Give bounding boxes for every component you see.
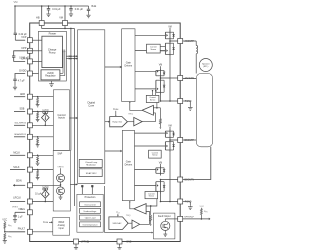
wire charge pump to regulator [62,50,64,74]
svg-text:VCP: VCP [21,36,26,39]
svg-text:TRQ: TRQ [126,215,131,217]
svg-text:VCC: VCC [199,206,204,208]
svg-text:Input: Input [59,227,64,230]
block Gate Drivers A [122,29,135,102]
wire core to ramp A [105,121,110,123]
svg-text:0.01 µF: 0.01 µF [52,8,61,11]
wire core to gate drivers A [105,66,122,68]
pin CPP [27,48,32,53]
svg-text:CPP: CPP [21,47,26,50]
svg-text:VREF: VREF [58,222,65,224]
transistor low side B1 [169,140,171,153]
pin FAULT [27,229,32,234]
transistor fault open drain [161,221,170,230]
svg-text:MCLK: MCLK [13,151,20,154]
node sense taps A [152,90,153,91]
wire internal rail 1 [70,28,72,150]
svg-text:0.01 µF: 0.01 µF [75,8,84,11]
block Control Inputs [53,90,69,151]
op-amp comparator A [142,105,153,115]
resistor pulldown ADR [37,96,39,98]
capacitor C1 0.01uF [48,6,50,9]
transistor low side B2 [160,180,162,194]
svg-text:SDB: SDB [19,108,24,111]
block SAP serial audio port [53,150,70,211]
svg-text:Regulator: Regulator [45,75,56,78]
wire core to protection 2 [91,186,93,194]
svg-text:Overtemperature: Overtemperature [82,223,98,226]
svg-text:VREG: VREG [18,208,25,211]
svg-text:TRQ: TRQ [128,113,133,115]
svg-text:DVDD: DVDD [19,70,26,73]
svg-text:VM: VM [14,0,18,4]
pin ASOUTN [160,77,162,79]
wire ASOUTN to load [183,78,197,80]
svg-text:Pump: Pump [49,51,56,55]
wire power to digital core bus [66,55,77,57]
pin MCLK [27,153,32,158]
svg-text:Open Load: Open Load [85,218,96,220]
pin BSOUTP [169,139,171,141]
svg-text:Drivers: Drivers [125,64,133,67]
block Undervoltage [80,208,101,213]
pin SCLK [27,167,32,172]
block Current Sense B2 [145,192,158,199]
block Overcurrent [80,202,101,207]
wire fault to pin [164,219,166,221]
ramp generator A [110,117,128,127]
svg-text:SDA/GPIO1: SDA/GPIO1 [14,133,27,136]
transistor high side B1 [169,129,171,140]
transistor low side A2 [160,78,162,95]
SNS DAC B [109,217,128,230]
wire current sense B to comparator [146,199,157,206]
svg-text:Undervoltage: Undervoltage [84,210,98,213]
block Current Sense B1 [149,150,162,158]
wire current sense A to comparator [153,103,157,108]
block Open Load [80,215,101,220]
svg-text:SNS DAC: SNS DAC [113,222,122,225]
block Overtemperature [80,222,101,227]
wire core to fault block [104,186,106,233]
svg-text:Ramp Gen: Ramp Gen [112,122,122,124]
transistor pullup in SAP [57,174,65,182]
svg-text:LRCLK: LRCLK [13,197,21,200]
svg-text:ASOUTP: ASOUTP [185,40,195,43]
capacitor VREG 1uF [14,212,16,215]
svg-text:CPN: CPN [21,57,26,60]
svg-text:Drivers: Drivers [125,163,133,166]
transistor high side A1 [169,30,171,41]
resistor pulldown SDB [37,111,39,113]
svg-text:(PPAD): (PPAD) [81,241,89,244]
capacitor CP fly 0.033uF [14,51,26,56]
transistor high side A2 [160,68,162,78]
svg-text:Inputs: Inputs [58,117,66,120]
resistor pulldown SCLK [37,169,39,171]
pin PPAD bottom [74,239,79,244]
block Current Sense A1 [147,44,161,53]
resistor pulldown MCLK [37,155,39,157]
op-amp pwm A [127,121,133,123]
transistor low side A1 [169,41,171,57]
wire control to core [70,117,78,119]
resistor pulldown SDA [37,136,39,138]
wire top supply rail [15,5,89,7]
pin PGND A [161,100,178,102]
pin CPN [27,59,32,64]
svg-text:VM: VM [59,17,63,20]
wire BSOUTN to load [183,147,211,180]
svg-text:SDAP SRC: SDAP SRC [86,172,97,175]
svg-text:10 µA: 10 µA [35,192,42,195]
svg-text:GND: GND [126,241,132,244]
capacitor VCP 0.22uF [14,32,17,34]
svg-text:Overcurrent: Overcurrent [84,203,96,206]
speaker note circle [199,59,212,72]
svg-text:Power: Power [49,32,57,36]
ground PGND A [183,100,191,102]
svg-text:Sense: Sense [152,155,157,157]
pin BSOUTN [160,179,162,181]
svg-text:HB: HB [36,17,40,20]
block Digital Core [78,30,105,184]
svg-text:SAP: SAP [57,152,62,155]
pin HB top [41,6,43,21]
pin SDB [27,109,32,114]
svg-text:Sense: Sense [149,196,154,198]
svg-text:SPKVN-F: SPKVN-F [184,217,194,219]
block Power [39,31,67,81]
ground PGND B [183,201,191,203]
svg-text:Fault Output: Fault Output [158,215,171,218]
block Closed Loop Modulator [79,160,102,168]
wire VM vertical to VCP cap [14,6,16,33]
resistor pullup fault [183,218,210,220]
svg-text:(BTL): (BTL) [203,66,208,68]
wire internal rail 2 [73,28,75,206]
transistor high side B2 [160,166,162,176]
capacitor C3 bulk [88,6,90,9]
op-amp comparator B [134,204,146,214]
ground below power block [51,81,53,82]
wire BSOUTP to load [183,139,197,141]
pin SDIN [27,183,32,188]
svg-text:VREG: VREG [57,166,63,168]
svg-text:ADR: ADR [20,93,25,96]
svg-text:SCL/GPIO2: SCL/GPIO2 [14,122,26,124]
pin DVDD [27,71,32,76]
op-amp pwm B [128,222,132,224]
transistor pulldown in SAP [57,187,65,195]
resistor sense A [157,107,161,109]
pin SCL/GPIO2 [27,123,32,128]
load [196,74,212,147]
pin GND bottom [117,239,122,244]
svg-text:Fuse: Fuse [113,109,119,111]
pin SPKVN-F [178,216,183,221]
svg-text:Analog: Analog [58,224,66,227]
wire SAP to core [70,183,77,185]
wire A1 source down [169,57,171,101]
block Protection [77,194,103,232]
svg-text:Modulator: Modulator [86,163,96,166]
capacitor C2 0.01uF [70,6,72,9]
wire ASOUTP to filter [183,40,197,42]
svg-text:Core: Core [88,104,94,108]
wire B2 source to pgnd [160,194,162,202]
wire comparator A out to gate drivers [130,102,142,111]
svg-text:1 µF: 1 µF [18,215,23,218]
block AVDD Regulator [41,70,60,80]
wire pwm A to comparator A [142,113,155,122]
wire core to gate drivers B [105,150,123,152]
svg-text:SCLK: SCLK [13,166,20,169]
pin ADR [27,94,32,99]
wire comparator B out to gate drivers [130,201,134,209]
block SDAP SRC [79,169,102,177]
inductor output filter [195,41,197,45]
wire core to protection 1 [81,186,83,194]
wire A2 source to pgnd [160,95,162,102]
svg-text:4.7 µF: 4.7 µF [18,80,25,83]
pin VM top [64,6,66,21]
pin VCP [27,38,32,43]
wire pwm B to comparator B [140,212,150,225]
block Fault Output [153,213,175,239]
svg-text:Sense: Sense [150,99,155,101]
svg-text:Fuse: Fuse [43,222,49,224]
pin PGND B [161,201,178,203]
wire HB/VM to internal rails [42,26,75,29]
pin ASOUTP [169,40,171,42]
svg-text:Bulk: Bulk [92,5,97,8]
svg-text:Sense: Sense [150,49,157,51]
svg-text:FAULT: FAULT [18,227,26,230]
resistor sense B [150,205,152,207]
svg-text:Protection: Protection [85,196,96,199]
pin SDA/GPIO1 [27,134,32,139]
IC outline [30,23,181,242]
block Charge Pump [42,36,63,67]
svg-text:SDIN: SDIN [16,180,22,183]
wire B1 source down [169,152,171,201]
block Current Sense A2 [146,95,159,102]
capacitor DVDD 4.7uF [15,74,25,80]
block VREF Analog Input [53,218,70,236]
block Gate Drivers B [122,130,134,200]
resistor pulldown to gnd [4,233,6,239]
pin LRCLK [27,199,32,204]
